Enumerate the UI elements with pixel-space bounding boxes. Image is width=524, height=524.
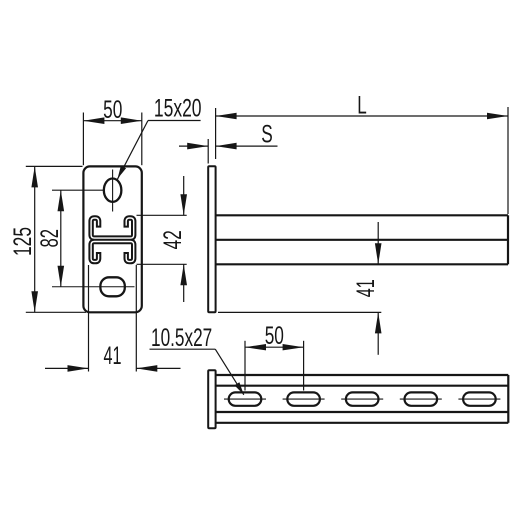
svg-text:42: 42 — [159, 230, 187, 249]
svg-text:50: 50 — [103, 96, 122, 124]
svg-text:125: 125 — [9, 227, 37, 256]
svg-text:82: 82 — [36, 229, 64, 247]
svg-text:41: 41 — [352, 279, 380, 297]
svg-text:10.5x27: 10.5x27 — [151, 324, 212, 352]
svg-text:41: 41 — [104, 342, 122, 370]
svg-text:S: S — [261, 121, 273, 149]
svg-text:15x20: 15x20 — [154, 95, 202, 123]
svg-text:50: 50 — [265, 322, 284, 350]
svg-text:L: L — [357, 91, 367, 119]
